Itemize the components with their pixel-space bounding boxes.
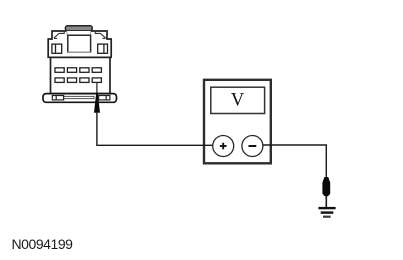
svg-text:N0094199: N0094199 [12, 236, 74, 252]
ground symbol [318, 207, 335, 218]
+ terminal [213, 136, 234, 157]
pin cavities row 1 [55, 68, 101, 73]
test probe 2 [322, 177, 330, 196]
wire: - terminal to ground probe [263, 145, 327, 178]
voltmeter display [211, 87, 265, 113]
svg-text:V: V [231, 91, 245, 111]
wire: probe 2 to ground [325, 196, 327, 207]
connector C1 lower body [51, 57, 111, 93]
wire: probe 1 to voltmeter + terminal [97, 113, 214, 146]
side slot left [52, 44, 62, 53]
side slot right [98, 44, 108, 53]
connector flange [43, 94, 117, 103]
pin cavities row 2 [55, 78, 101, 83]
connector head [48, 31, 111, 57]
voltmeter body [204, 80, 271, 164]
corner notch left [54, 31, 64, 39]
test probe 1 [94, 93, 100, 113]
corner notch right [95, 31, 105, 39]
- terminal [242, 136, 263, 157]
pin 4 lead line [96, 82, 98, 93]
connector center cavity [68, 35, 91, 52]
connector latch tab [65, 26, 92, 36]
